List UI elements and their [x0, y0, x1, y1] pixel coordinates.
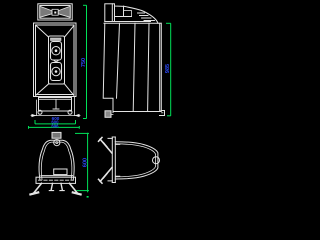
svg-text:600: 600 — [82, 158, 88, 167]
svg-text:985: 985 — [165, 64, 171, 73]
svg-text:750: 750 — [81, 58, 87, 67]
svg-text:696: 696 — [51, 123, 59, 128]
